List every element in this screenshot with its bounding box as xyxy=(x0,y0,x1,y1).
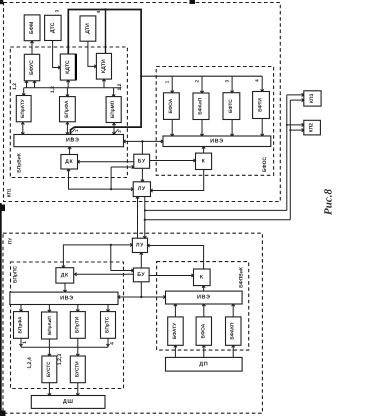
svg-text:БУ: БУ xyxy=(138,158,146,164)
svg-text:ДК: ДК xyxy=(65,159,73,165)
wire gamma IVV to KDTS KDTI tops (thick) xyxy=(68,10,141,135)
wire BU to DK xyxy=(78,161,134,163)
svg-text:БПрТС: БПрТС xyxy=(105,316,111,333)
scan artifact left-middle xyxy=(0,205,5,212)
block BFAKP xyxy=(226,317,242,345)
wire BPrMP to IVV xyxy=(113,123,115,135)
wire drop to BPrATU xyxy=(23,88,25,96)
svg-text:ЛУ: ЛУ xyxy=(136,242,144,248)
svg-text:ИВЭ: ИВЭ xyxy=(210,138,224,144)
wire IVV to IVN link xyxy=(124,140,164,142)
block K upper xyxy=(196,153,212,169)
svg-text:БПрМП: БПрМП xyxy=(110,100,116,118)
wire DP to BFATU xyxy=(174,345,176,357)
svg-text:К: К xyxy=(202,158,206,164)
wire H2 to V2 xyxy=(145,219,290,221)
junction H2 xyxy=(144,219,146,221)
junction H1 xyxy=(144,209,146,211)
wire bus A (below KDTS row) xyxy=(24,87,121,89)
svg-text:К: К xyxy=(200,274,204,280)
svg-text:ДТИ: ДТИ xyxy=(85,23,91,34)
svg-text:КП1: КП1 xyxy=(7,188,12,197)
tick 1 on BPrFA line xyxy=(72,129,76,133)
wire BFATU to IVN D xyxy=(174,304,176,317)
wire V1 to KP2 xyxy=(287,124,304,126)
svg-text:3: 3 xyxy=(224,80,229,83)
block BFTS xyxy=(223,93,240,120)
wire riser to KDTS xyxy=(67,80,69,88)
block DTS xyxy=(45,15,62,40)
wire K to IVN B xyxy=(203,147,205,154)
svg-text:БФТС: БФТС xyxy=(228,99,234,113)
svg-text:БФАТУ: БФАТУ xyxy=(172,323,178,339)
junction V1 KP2 xyxy=(286,124,288,126)
junction branch BU lower xyxy=(110,244,112,246)
tick 2 on BPrMP line xyxy=(115,129,119,133)
cluster box BFOS (upper right dashed) xyxy=(156,67,273,176)
wire K down to LU upper xyxy=(151,170,204,191)
wire drop1 to BFOA xyxy=(171,76,173,93)
block BFM xyxy=(24,15,40,41)
wire V1 xyxy=(286,95,288,210)
wire drop2 to BFAiP xyxy=(201,76,203,93)
wire BU to K xyxy=(150,160,196,162)
svg-text:1: 1 xyxy=(22,341,28,344)
svg-text:1,2,3: 1,2,3 xyxy=(57,354,63,366)
svg-text:2: 2 xyxy=(194,80,199,83)
svg-text:4: 4 xyxy=(96,10,101,13)
block DSh xyxy=(31,396,105,409)
svg-text:БФОС: БФОС xyxy=(262,156,268,172)
wire riser to BFUS left xyxy=(26,81,28,88)
junction branch BU upper xyxy=(110,188,112,190)
block IVV xyxy=(14,135,124,147)
wire IVN C to BPrTS xyxy=(107,305,109,312)
block LU lower xyxy=(132,238,147,252)
wire drop to BPrMP xyxy=(113,88,115,97)
svg-text:ДК: ДК xyxy=(61,272,69,278)
block LU upper xyxy=(133,182,150,197)
svg-text:БФМ: БФМ xyxy=(29,22,35,34)
svg-text:БФАКП: БФАКП xyxy=(230,322,236,340)
wire drop to BPrFA xyxy=(66,88,68,97)
block BU upper xyxy=(134,154,150,168)
wire BU lower to LU lower xyxy=(140,253,142,269)
wire DTS to KDTS xyxy=(53,41,61,68)
block DTI xyxy=(80,16,96,41)
scan artifact top-left xyxy=(0,0,3,4)
wire BFTI to IVN B xyxy=(261,119,263,137)
svg-text:1: 1 xyxy=(165,80,170,83)
svg-text:3: 3 xyxy=(55,9,60,12)
svg-text:1,2,4: 1,2,4 xyxy=(27,357,33,369)
junction V2 KP2 xyxy=(289,129,291,131)
svg-text:ДП: ДП xyxy=(199,361,208,367)
wire V2 to KP3 xyxy=(290,99,304,101)
station frame KP1 (upper dashed box) xyxy=(4,3,281,202)
wire BFUS to BFM xyxy=(31,41,33,54)
svg-text:БПрАТУ: БПрАТУ xyxy=(20,99,26,118)
svg-text:БПрФА: БПрФА xyxy=(17,316,23,334)
cluster box BFPViK (lower right dashed) xyxy=(157,262,249,351)
svg-text:БПрПС: БПрПС xyxy=(13,266,19,284)
wire BU lower down xyxy=(140,282,142,297)
block BUSTS xyxy=(42,356,57,383)
wire branch 4 to KDTI top xyxy=(105,10,107,54)
wire drop4 to BFTI xyxy=(261,76,263,91)
svg-text:БУ: БУ xyxy=(137,272,145,278)
svg-text:ИВЭ: ИВЭ xyxy=(66,138,80,144)
svg-text:ЛУ: ЛУ xyxy=(138,186,146,192)
svg-text:БФПВиК: БФПВиК xyxy=(238,267,244,288)
svg-text:ДШ: ДШ xyxy=(63,399,74,405)
wire branch to BU lower xyxy=(110,245,112,271)
station frame PU (lower dashed box) xyxy=(3,233,262,413)
wire BPrFA to IVV xyxy=(66,122,68,135)
block IVN D xyxy=(166,291,243,304)
wire BUSTS to DSh xyxy=(48,383,50,396)
wire BFOA D to IVN D xyxy=(203,304,205,317)
svg-text:БПрТИ: БПрТИ xyxy=(74,316,80,333)
wire BFOA to IVN B xyxy=(171,119,173,136)
svg-text:БФОА: БФОА xyxy=(168,98,174,113)
wire V2 to KP2 xyxy=(290,129,304,131)
cluster box BPrPS (lower left dashed) xyxy=(11,262,124,389)
wire BU to LU upper xyxy=(141,168,143,182)
block K lower xyxy=(194,269,211,286)
wire DK lower to IVN C xyxy=(64,283,66,292)
junction BU lower on link xyxy=(140,296,142,298)
svg-text:КП2: КП2 xyxy=(309,123,315,133)
block KP2 xyxy=(304,120,321,135)
wire DK down to LU upper xyxy=(69,169,134,189)
wire riser to KDTI xyxy=(103,79,105,88)
wire LU pair line 2 xyxy=(144,197,146,239)
svg-text:ПУ: ПУ xyxy=(8,238,13,244)
wire bus C lower xyxy=(21,346,108,348)
svg-text:ИВЭ: ИВЭ xyxy=(197,295,211,301)
wire IVN C to IVN D link xyxy=(118,296,166,298)
block BFATU xyxy=(168,317,184,345)
svg-text:БФАиП: БФАиП xyxy=(198,97,204,115)
svg-text:КДТИ: КДТИ xyxy=(101,59,107,73)
block BPrFA lower xyxy=(14,312,29,339)
wire IVN C to BPrAiP xyxy=(48,305,50,313)
block BFAiP xyxy=(193,93,209,120)
block BPrAiP xyxy=(42,312,58,339)
wire BU lower to DK lower xyxy=(75,273,134,275)
scan artifact top-middle xyxy=(190,0,196,4)
wire riser to BFUS right xyxy=(34,81,36,88)
wire DK to IVV xyxy=(69,147,71,155)
svg-text:Рис.8: Рис.8 xyxy=(323,189,335,215)
wire branch to BU upper xyxy=(110,167,112,189)
wire bus to BFOS cluster xyxy=(141,75,262,77)
svg-text:БУСТС: БУСТС xyxy=(46,361,52,377)
svg-text:1,2: 1,2 xyxy=(50,86,56,93)
block BFUS xyxy=(24,54,39,81)
svg-text:БФОА: БФОА xyxy=(200,323,206,338)
svg-text:БПрВиК: БПрВиК xyxy=(17,153,23,173)
wire BFAKP to IVN D xyxy=(232,304,234,317)
wire BFTS to IVN B xyxy=(231,119,233,136)
svg-text:ДТС: ДТС xyxy=(50,22,56,33)
svg-text:КДТС: КДТС xyxy=(65,60,71,74)
superscript mark in IVV label xyxy=(71,137,73,139)
scan artifact left edge strip xyxy=(0,203,2,416)
wire DTI to KDTI xyxy=(88,41,97,66)
junction branch4 xyxy=(104,8,106,10)
svg-text:1,2: 1,2 xyxy=(12,83,18,90)
block IVN C xyxy=(10,292,118,304)
block KDTI xyxy=(96,53,111,79)
svg-text:БПрАиП: БПрАиП xyxy=(47,316,52,335)
wire BUSTI to DSh xyxy=(77,383,79,396)
svg-text:ИВЭ: ИВЭ xyxy=(60,295,74,301)
svg-text:БПрФА: БПрФА xyxy=(64,100,70,118)
cluster box BPrViK (upper left dashed) xyxy=(10,47,127,178)
wire BPrTS down to bus xyxy=(107,338,109,347)
block BPrATU xyxy=(16,96,31,122)
wire DP to BFOA D xyxy=(203,345,205,357)
block BU lower xyxy=(133,268,149,282)
wire BU up to link xyxy=(141,141,143,154)
block BPrTS xyxy=(101,312,116,339)
wire BFAiP to IVN B xyxy=(201,120,203,137)
block BFOA lower xyxy=(196,317,211,345)
svg-text:4: 4 xyxy=(109,342,115,345)
wire BPrTI to BUSTI xyxy=(77,338,79,356)
wire K lower to LU lower xyxy=(148,246,204,270)
svg-text:БФТИ: БФТИ xyxy=(258,98,264,112)
svg-text:КП3: КП3 xyxy=(309,94,315,104)
junction bus-BFOS on gamma wire xyxy=(140,75,142,77)
svg-text:4: 4 xyxy=(255,79,260,82)
block BPrMP xyxy=(106,97,121,123)
wire IVN C to BPrTI xyxy=(77,305,79,312)
wire BPrATU to IVV xyxy=(22,122,24,135)
block KP3 xyxy=(304,91,321,106)
scan artifact bottom-left xyxy=(0,411,6,416)
block BPrFA xyxy=(60,97,76,122)
block BUSTI xyxy=(70,356,85,383)
block DP xyxy=(166,357,243,371)
wire LU pair line 1 xyxy=(137,197,139,239)
block DK upper xyxy=(61,155,78,170)
block BFOA xyxy=(164,93,180,120)
block KDTS xyxy=(60,54,76,80)
wire BPrFA down to bus xyxy=(20,338,22,347)
wire IVN D to K lower xyxy=(203,286,205,292)
svg-text:БУСТИ: БУСТИ xyxy=(74,361,80,377)
junction BU on link xyxy=(141,140,143,142)
wire IVN C to BPrFA xyxy=(20,305,22,312)
block BPrTI xyxy=(70,312,85,339)
wire DK lower to LU lower xyxy=(63,245,132,268)
block DK lower xyxy=(56,268,74,283)
block BFTI xyxy=(253,92,270,119)
wire BPrAiP to BUSTS xyxy=(48,339,50,356)
wire H1 to V1 xyxy=(145,209,287,211)
wire V2 xyxy=(289,100,291,220)
wire DP to BFAKP xyxy=(232,345,234,357)
block IVN B xyxy=(163,136,271,147)
wire V1 to KP3 xyxy=(287,94,304,96)
svg-text:БФУС: БФУС xyxy=(29,60,35,75)
wire drop3 to BFTS xyxy=(231,76,233,93)
wire BU lower to K lower xyxy=(149,275,193,277)
svg-text:1,2: 1,2 xyxy=(117,83,123,90)
